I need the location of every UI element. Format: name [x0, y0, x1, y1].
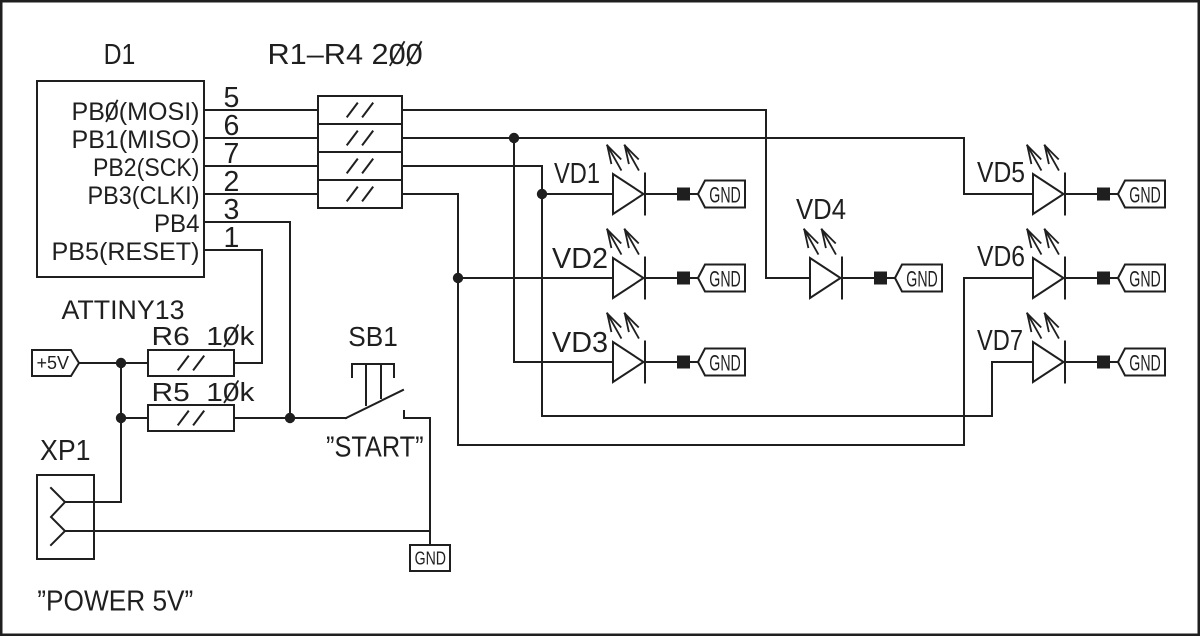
svg-text:GND: GND	[415, 549, 446, 569]
svg-text:PB5(RESET): PB5(RESET)	[52, 238, 200, 266]
svg-text:R1–R4 2: R1–R4 2	[268, 39, 389, 71]
svg-text:GND: GND	[709, 182, 741, 207]
svg-text:SB1: SB1	[348, 321, 398, 352]
svg-text:VD7: VD7	[977, 325, 1023, 357]
svg-text:R6 1: R6 1	[152, 323, 223, 351]
svg-text:GND: GND	[906, 266, 938, 291]
svg-text:PB4: PB4	[154, 210, 200, 238]
svg-text:”POWER 5V”: ”POWER 5V”	[37, 586, 193, 618]
svg-text:+5V: +5V	[37, 353, 70, 373]
svg-text:1: 1	[224, 222, 240, 254]
svg-text:GND: GND	[1129, 350, 1161, 375]
svg-text:VD5: VD5	[977, 157, 1025, 189]
svg-text:PB: PB	[72, 98, 105, 126]
svg-text:PB1(MISO): PB1(MISO)	[72, 126, 200, 154]
svg-text:ATTINY13: ATTINY13	[62, 295, 185, 325]
svg-text:(MOSI): (MOSI)	[119, 98, 200, 126]
svg-text:k: k	[240, 379, 255, 407]
svg-text:VD4: VD4	[796, 194, 846, 226]
svg-text:VD2: VD2	[552, 243, 608, 275]
svg-text:GND: GND	[1129, 182, 1161, 207]
svg-text:R5 1: R5 1	[152, 379, 223, 407]
svg-text:VD6: VD6	[977, 241, 1025, 273]
svg-text:”START”: ”START”	[326, 432, 424, 464]
svg-text:VD1: VD1	[554, 158, 600, 190]
svg-text:PB2(SCK): PB2(SCK)	[93, 154, 200, 182]
svg-text:k: k	[240, 323, 255, 351]
svg-text:PB3(CLKI): PB3(CLKI)	[88, 182, 200, 210]
svg-text:GND: GND	[709, 266, 741, 291]
svg-text:VD3: VD3	[552, 327, 608, 359]
svg-text:GND: GND	[1129, 266, 1161, 291]
svg-text:GND: GND	[709, 350, 741, 375]
svg-text:D1: D1	[104, 39, 136, 71]
svg-text:XP1: XP1	[40, 435, 91, 467]
